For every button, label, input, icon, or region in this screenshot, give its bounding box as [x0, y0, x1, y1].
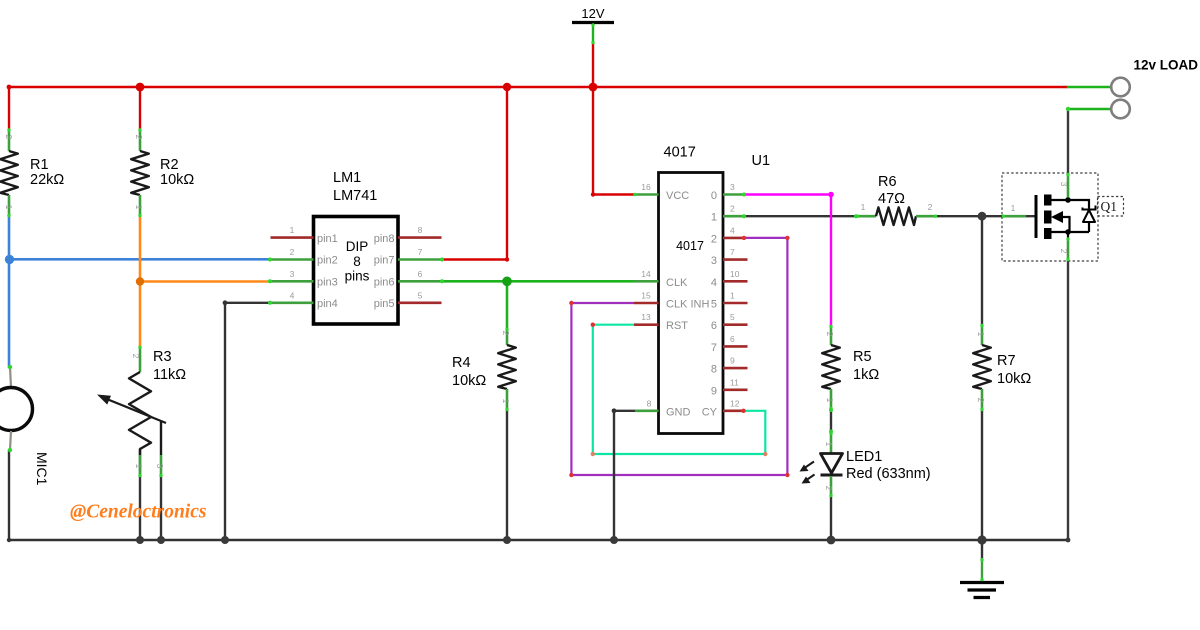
svg-text:1: 1 — [824, 442, 834, 447]
svg-text:12v LOAD: 12v LOAD — [1134, 58, 1199, 73]
4017 out1 stub pin2 — [723, 215, 744, 218]
node: rail / pin7 branch — [503, 83, 511, 91]
Q1 drain vertical — [1067, 173, 1070, 200]
wire: black R7 bottom to ground bus — [981, 411, 983, 540]
svg-text:2: 2 — [134, 135, 144, 140]
4017 GND stub pin8 — [635, 409, 659, 412]
wire: green LM741 pin6 to node C — [442, 280, 507, 283]
Q1 source contact — [1044, 228, 1052, 239]
svg-text:12V: 12V — [581, 6, 604, 21]
bendpoint: teal at CY — [741, 409, 745, 413]
node: red corner at VCC — [591, 192, 595, 196]
node C: green junction — [502, 277, 512, 287]
svg-text:14: 14 — [641, 269, 651, 279]
Q1 source vertical — [1067, 232, 1069, 238]
load terminal 1 — [1111, 78, 1130, 97]
svg-text:R6: R6 — [878, 174, 897, 190]
svg-text:R3: R3 — [153, 349, 172, 365]
svg-text:R4: R4 — [452, 355, 471, 371]
node: Q1 drain dot — [1065, 197, 1071, 203]
resistor R4 — [498, 328, 516, 411]
wire: orange from R2 bottom to node B — [139, 216, 142, 282]
svg-text:2: 2 — [290, 247, 295, 257]
op-amp U1 LM741 DIP box — [270, 217, 442, 325]
svg-text:3: 3 — [711, 255, 717, 267]
svg-text:pin3: pin3 — [317, 276, 338, 288]
wire: red drop to R1 — [8, 87, 10, 129]
svg-text:DIP: DIP — [346, 239, 369, 254]
node: magenta corner at R5 — [828, 192, 834, 198]
svg-text:1: 1 — [4, 205, 14, 210]
bendpoint: teal at RST — [591, 323, 595, 327]
svg-text:10kΩ: 10kΩ — [997, 371, 1031, 387]
bendpoint: LED1 top — [829, 430, 833, 434]
svg-text:2: 2 — [4, 135, 14, 140]
node: bus / pin4 wire — [221, 536, 229, 544]
wire: black R4 bottom to ground bus — [506, 411, 508, 540]
wire: green rail to load terminal 1 — [1068, 86, 1111, 89]
bendpoint: MIC top — [8, 365, 12, 369]
node: rail left end — [7, 85, 12, 90]
svg-text:8: 8 — [711, 364, 717, 376]
svg-text:RST: RST — [666, 320, 688, 332]
LED LED1 — [800, 432, 843, 497]
bendpoint: LM741 pin3 — [268, 279, 272, 283]
node: rail / R2 junction — [136, 83, 145, 92]
svg-text:@Ceneloctronics: @Ceneloctronics — [70, 502, 206, 523]
resistor R6 — [856, 202, 937, 225]
bendpoint: 4017 out0 — [742, 193, 746, 197]
svg-text:MIC1: MIC1 — [34, 452, 50, 486]
svg-text:8: 8 — [418, 225, 423, 235]
svg-text:4: 4 — [290, 291, 295, 301]
svg-text:16: 16 — [641, 182, 651, 192]
node D: gate/R7 junction — [978, 212, 987, 221]
wire: red from 12V symbol down to rail — [592, 43, 594, 87]
Q1 body arrow — [1051, 211, 1063, 223]
svg-text:VCC: VCC — [666, 190, 689, 202]
svg-text:LM741: LM741 — [333, 188, 377, 204]
Q1 body contact — [1044, 211, 1052, 224]
bendpoint: purple corner bottom right — [785, 473, 789, 477]
4017 out6 stub pin5 — [723, 323, 748, 326]
svg-text:10: 10 — [730, 269, 740, 279]
wire: black LM741 pin4 to ground bus — [225, 303, 270, 540]
LM741 pin 4 stub — [270, 301, 314, 304]
wire: black Q1 source down to ground bus — [1067, 261, 1069, 540]
svg-text:1: 1 — [976, 332, 986, 337]
svg-text:5: 5 — [418, 291, 423, 301]
4017 out8 stub pin9 — [723, 367, 748, 370]
wire: green node C down to R4 — [506, 281, 509, 328]
IC U1 4017 box — [634, 173, 748, 434]
Q1 drain wire — [1051, 200, 1089, 209]
bendpoint: teal corner bottom left — [591, 452, 595, 456]
bendpoint: purple at CLK INH — [569, 301, 573, 305]
svg-text:3: 3 — [1059, 182, 1069, 187]
svg-text:R5: R5 — [853, 349, 872, 365]
4017 out5 stub pin1 — [723, 302, 748, 305]
svg-text:R2: R2 — [160, 157, 179, 173]
svg-text:9: 9 — [730, 356, 735, 366]
4017 out2 stub pin4 — [723, 237, 744, 240]
svg-text:4: 4 — [711, 277, 717, 289]
node: bus / R3 wiper — [157, 536, 165, 544]
LM741 pin 3 stub — [270, 280, 314, 283]
svg-text:4: 4 — [730, 225, 735, 235]
svg-text:7: 7 — [711, 342, 717, 354]
wire: black 4017 GND to ground bus — [614, 411, 635, 540]
svg-text:6: 6 — [418, 269, 423, 279]
bendpoint: black at GND pin — [612, 408, 617, 413]
bendpoint: LM741 pin4 — [268, 301, 272, 305]
svg-text:11kΩ: 11kΩ — [153, 367, 186, 383]
4017 out0 stub pin3 — [723, 193, 744, 196]
Q1 gate stub — [1002, 215, 1026, 218]
4017 CLK INH stub pin15 — [634, 302, 659, 305]
svg-text:Red (633nm): Red (633nm) — [846, 466, 931, 482]
bendpoint: R5 bottom — [829, 408, 833, 412]
svg-text:4017: 4017 — [664, 145, 696, 161]
svg-text:2: 2 — [711, 233, 717, 245]
4017 RST stub pin13 — [634, 323, 659, 326]
wire: red branch to 4017 VCC — [593, 87, 634, 195]
svg-text:pin7: pin7 — [374, 255, 395, 267]
potentiometer R3 — [97, 346, 166, 477]
wire: black R3 pin1 to ground bus — [139, 449, 141, 540]
svg-text:1: 1 — [290, 225, 295, 235]
svg-text:pin2: pin2 — [317, 255, 338, 267]
wire: black LED1 to ground bus — [830, 497, 832, 540]
svg-text:2: 2 — [131, 354, 141, 359]
svg-text:CLK INH: CLK INH — [666, 299, 709, 311]
node: red corner at pin7 — [505, 257, 509, 261]
bendpoint: purple corner top right — [785, 236, 789, 240]
bendpoint: teal corner bottom right — [763, 452, 767, 456]
node: bus / R3 pin1 — [136, 536, 144, 544]
wire: black 4017 out1 to R6 — [744, 215, 856, 217]
resistor R1 — [0, 129, 18, 217]
4017 out9 stub pin11 — [723, 388, 748, 391]
LM741 pin 5 stub — [398, 301, 442, 304]
svg-text:11: 11 — [730, 377, 739, 387]
svg-text:pin5: pin5 — [374, 298, 395, 310]
svg-text:6: 6 — [730, 334, 735, 344]
svg-text:9: 9 — [711, 385, 717, 397]
node: rail / 12V supply junction — [589, 83, 598, 92]
bendpoint: MIC bottom — [8, 448, 12, 452]
svg-text:1kΩ: 1kΩ — [853, 367, 879, 383]
bendpoint: load corner — [1066, 107, 1070, 111]
LM741 pin 1 stub — [271, 236, 314, 239]
svg-text:2: 2 — [825, 332, 835, 337]
ground symbol — [960, 583, 1004, 598]
svg-text:2: 2 — [824, 486, 834, 491]
svg-text:3: 3 — [155, 464, 165, 469]
svg-text:0: 0 — [711, 190, 717, 202]
node: bus / ground — [977, 535, 986, 544]
wire: black gate stub into Q1 — [1026, 215, 1036, 217]
svg-text:10kΩ: 10kΩ — [452, 373, 486, 389]
svg-text:Q1: Q1 — [1101, 199, 1118, 214]
svg-text:LM1: LM1 — [333, 170, 361, 186]
svg-text:2: 2 — [501, 331, 511, 336]
4017 out4 stub pin10 — [723, 280, 748, 283]
svg-text:6: 6 — [711, 320, 717, 332]
wire: green load terminal 2 to drain corner — [1068, 108, 1111, 111]
wire: ground bus — [9, 539, 1068, 542]
wire: teal 4017 CY loop to RST — [593, 325, 766, 454]
LM741 pin 2 stub — [270, 258, 314, 261]
4017 out3 stub pin7 — [723, 258, 748, 261]
svg-text:7: 7 — [418, 247, 423, 257]
wire: orange node B to LM741 pin3 — [140, 280, 270, 283]
svg-text:R7: R7 — [997, 353, 1016, 369]
node: Q1 source dot — [1065, 229, 1071, 235]
svg-text:1: 1 — [1011, 203, 1016, 213]
svg-text:47Ω: 47Ω — [878, 191, 905, 207]
wire: black R3 wiper to ground bus — [160, 477, 162, 540]
svg-text:1: 1 — [730, 291, 735, 301]
svg-text:1: 1 — [825, 398, 835, 403]
resistor R5 — [822, 325, 840, 410]
wire: blue node A to LM741 pin2 — [9, 258, 270, 261]
svg-text:U1: U1 — [752, 153, 771, 169]
svg-text:13: 13 — [641, 312, 651, 322]
svg-text:1: 1 — [134, 464, 144, 469]
svg-text:LED1: LED1 — [846, 449, 882, 465]
svg-text:2: 2 — [976, 398, 986, 403]
load terminal 2 — [1111, 100, 1130, 119]
svg-text:pin6: pin6 — [374, 276, 395, 288]
bendpoint: purple corner bottom left — [569, 473, 573, 477]
leg tick marks — [7, 23, 1069, 581]
wire: black R5 to LED1 — [830, 410, 832, 432]
node: bus corner left — [7, 538, 11, 542]
svg-text:CLK: CLK — [666, 277, 688, 289]
svg-text:pin1: pin1 — [317, 233, 338, 245]
wire: red branch to LM741 pin7 — [442, 87, 507, 260]
4017 CLK stub pin14 — [634, 280, 659, 283]
wire: green ground stub — [981, 540, 983, 559]
svg-text:R1: R1 — [30, 157, 49, 173]
wire: black R6 to gate node D — [937, 215, 1002, 217]
bendpoint: LM741 pin6 — [440, 279, 444, 283]
resistor R7 — [973, 324, 991, 411]
bendpoint: purple at out2 stub — [742, 236, 746, 240]
svg-text:5: 5 — [730, 312, 735, 322]
bendpoint: 4017 out1 — [742, 214, 746, 218]
node: bus / 4017 GND — [610, 536, 618, 544]
LM741 pin 6 stub — [398, 280, 442, 283]
svg-text:10kΩ: 10kΩ — [160, 172, 194, 188]
svg-text:1: 1 — [861, 202, 866, 212]
12V supply symbol — [572, 6, 614, 44]
svg-text:GND: GND — [666, 406, 691, 418]
svg-text:4017: 4017 — [676, 239, 704, 253]
4017 CY stub pin12 — [723, 409, 744, 412]
wire: blue node A down to MIC1 — [8, 259, 11, 367]
svg-text:1: 1 — [501, 399, 511, 404]
node: bus / R4 — [503, 536, 511, 544]
4017 VCC stub pin16 — [634, 193, 659, 196]
svg-text:pins: pins — [345, 269, 370, 284]
svg-text:22kΩ: 22kΩ — [30, 172, 64, 188]
node: bus / LED — [827, 536, 836, 545]
svg-text:1: 1 — [134, 205, 144, 210]
wire: red drop to R2 — [139, 87, 141, 129]
node B: orange junction — [136, 277, 144, 285]
Q1 drain contact — [1044, 195, 1052, 206]
svg-text:3: 3 — [730, 182, 735, 192]
wire: orange node B down to R3 — [139, 282, 142, 347]
svg-text:pin8: pin8 — [374, 233, 395, 245]
bendpoint: LM741 pin7 — [440, 258, 444, 262]
svg-text:7: 7 — [730, 247, 735, 257]
microphone MIC1 — [0, 367, 33, 450]
bendpoint: black at pin4 corner — [223, 300, 228, 305]
Q1 source wire — [1051, 231, 1089, 233]
svg-text:2: 2 — [730, 204, 735, 214]
LM741 pin 7 stub — [398, 258, 442, 261]
svg-text:3: 3 — [290, 269, 295, 279]
transistor Q1 MOSFET — [1002, 173, 1124, 261]
wire: black drain corner down to Q1 — [1067, 109, 1069, 173]
wire: purple 4017 out2 loop to CLK INH — [571, 238, 787, 475]
wire: blue from R1 bottom to node A — [8, 216, 11, 259]
LM741 pin 8 stub — [398, 236, 442, 239]
wire: magenta 4017 out0 to R5 — [744, 195, 831, 326]
svg-text:8: 8 — [353, 254, 361, 269]
node: bus right end — [1066, 538, 1071, 543]
node A: blue junction — [5, 255, 14, 264]
Q1 body diode — [1083, 206, 1096, 210]
wire: green node C to 4017 CLK — [507, 280, 634, 283]
svg-text:15: 15 — [641, 291, 651, 301]
4017 out7 stub pin6 — [723, 345, 748, 348]
svg-text:2: 2 — [1059, 249, 1069, 254]
svg-text:2: 2 — [928, 202, 933, 212]
wire: 12V top rail (red) — [9, 86, 1068, 89]
svg-text:CY: CY — [702, 406, 718, 418]
wire: black node D down to R7 — [981, 216, 983, 324]
wire: black MIC1 to ground bus — [8, 450, 10, 540]
Q1 gate bar — [1035, 195, 1038, 238]
bendpoint: R6 left — [854, 214, 858, 218]
svg-text:12: 12 — [730, 398, 740, 408]
bendpoint: LM741 pin2 — [268, 258, 272, 262]
svg-text:8: 8 — [647, 398, 652, 408]
svg-text:pin4: pin4 — [317, 298, 338, 310]
svg-text:5: 5 — [711, 299, 717, 311]
svg-text:1: 1 — [711, 212, 717, 224]
resistor R2 — [131, 129, 149, 217]
